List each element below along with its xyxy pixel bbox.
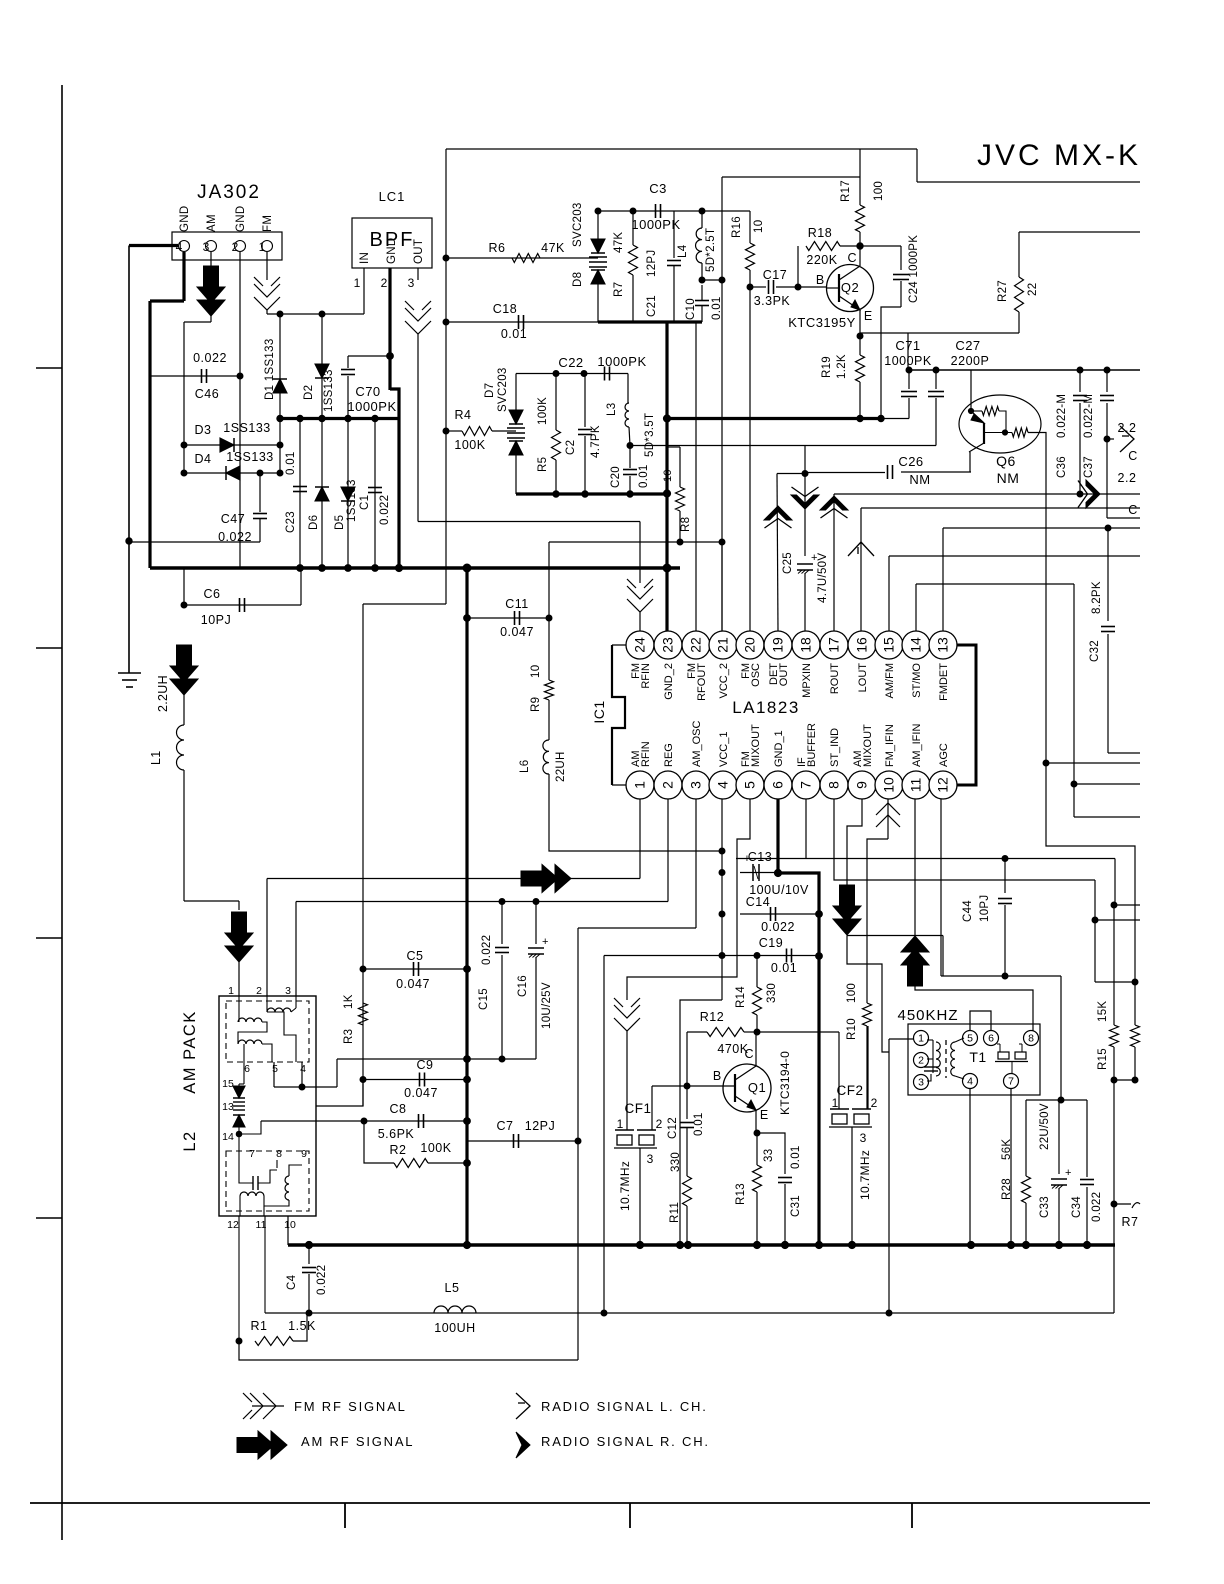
svg-text:C18: C18 [493, 302, 517, 316]
svg-text:C34: C34 [1071, 1196, 1083, 1218]
IC1 pin 15 [875, 631, 903, 659]
IC1 pin 22 [682, 631, 710, 659]
junction C16 top [533, 899, 539, 905]
svg-text:REG: REG [663, 743, 675, 767]
wire [900, 281, 902, 307]
bottom tick x912 [911, 1503, 913, 1528]
wire pin13 FMDET [942, 528, 944, 631]
diode D4 1SS133 [226, 466, 240, 480]
junction bus [684, 1241, 691, 1248]
wire C34 top [1086, 1100, 1088, 1177]
bottom tick x630 [629, 1503, 631, 1528]
junction bus [815, 1241, 822, 1248]
wire C4 top [308, 1245, 310, 1264]
wire [784, 1184, 786, 1245]
capacitor C15 [495, 948, 509, 953]
capacitor C36 [1073, 396, 1087, 401]
junction [319, 311, 325, 317]
junction [1043, 760, 1049, 766]
capacitor C16 [528, 936, 548, 958]
wire [942, 936, 944, 977]
svg-text:220K: 220K [806, 253, 837, 267]
junction bus [636, 1241, 643, 1248]
wire JA302-1 [266, 252, 268, 280]
svg-text:OSC: OSC [750, 663, 762, 687]
wire JA302-2 to bus [239, 252, 241, 568]
wire [927, 1058, 933, 1060]
wire [308, 1274, 310, 1313]
wire tank line y373 [516, 373, 628, 375]
wire C6 right to bus [300, 568, 302, 605]
wire D5 column [347, 419, 349, 569]
svg-text:1000PK: 1000PK [631, 217, 680, 232]
wire thick bus y494 [516, 492, 667, 495]
T1 pin 2 [914, 1053, 929, 1068]
wire [293, 1313, 307, 1341]
wire [262, 1044, 272, 1062]
wire R28 top [1025, 1100, 1027, 1176]
wire pin21 VCC_2 [721, 542, 723, 631]
junction [627, 491, 633, 497]
filter CF1 right plate [637, 1129, 656, 1131]
svg-text:C7: C7 [497, 1119, 514, 1133]
svg-text:NM: NM [909, 472, 930, 487]
wire pin2 REG [667, 799, 669, 902]
diode D3 1SS133 [220, 438, 234, 452]
wire [756, 1015, 758, 1032]
wire [686, 1206, 688, 1245]
filter CF2 right element [854, 1114, 869, 1124]
junction C37 top [1104, 367, 1110, 373]
svg-text:1: 1 [354, 276, 361, 290]
junction Q2 base node [795, 284, 801, 290]
wire [291, 1008, 296, 1012]
junction R14 top [754, 953, 760, 959]
svg-text:FM: FM [262, 215, 274, 232]
wire stub y784 [1074, 783, 1140, 785]
svg-text:KTC3194-0: KTC3194-0 [778, 1051, 792, 1115]
junction [1002, 430, 1007, 435]
wire C1 column [374, 419, 376, 569]
wire [701, 285, 703, 300]
junction C44 top [1002, 856, 1008, 862]
wire [639, 612, 641, 631]
wire x1114 down [1113, 1080, 1115, 1313]
svg-text:7: 7 [249, 1148, 255, 1160]
svg-text:17: 17 [826, 637, 842, 653]
wire [955, 1038, 964, 1042]
page bottom border [30, 1502, 1150, 1504]
junction bus [463, 1241, 470, 1248]
svg-text:C11: C11 [505, 597, 529, 611]
border tick y1218 [36, 1217, 62, 1219]
IC1 pin 16 [848, 631, 876, 659]
transistor Q1 [723, 1064, 771, 1112]
svg-text:2: 2 [656, 1117, 663, 1131]
wire Q6 emitter pin down [969, 452, 971, 473]
svg-text:C6: C6 [204, 587, 221, 601]
wire [804, 573, 806, 631]
wire AGC line y976 [941, 975, 1061, 977]
wire [239, 1121, 261, 1134]
AM PACK L2 body [219, 996, 316, 1216]
junction R7 top [630, 208, 636, 214]
svg-text:100: 100 [873, 181, 885, 201]
L2 coil b [267, 1008, 291, 1012]
wire [626, 1031, 628, 1130]
wire thick pin23 GND_2 [665, 322, 668, 631]
svg-text:IN: IN [359, 252, 371, 264]
wire Q6 collector route [1046, 763, 1135, 982]
junction D1/bus [277, 415, 283, 421]
wire pin4 VCC_1 [721, 799, 723, 1000]
svg-text:R13: R13 [735, 1183, 747, 1205]
junction C36 top [1077, 367, 1083, 373]
wire CF1 pin2 lead [651, 1086, 653, 1130]
svg-text:R7: R7 [613, 282, 625, 297]
wire x578 [577, 928, 579, 1360]
resistor R13 [753, 1165, 762, 1192]
wire [266, 310, 268, 314]
wire [701, 263, 703, 280]
junction [299, 1084, 305, 1090]
svg-text:0.01: 0.01 [693, 1112, 705, 1136]
wire C21 top [673, 211, 675, 258]
svg-text:ROUT: ROUT [829, 663, 841, 694]
wire x363 column [362, 604, 364, 1106]
junction bus [1022, 1241, 1029, 1248]
wire [859, 232, 861, 246]
svg-text:KTC3195Y: KTC3195Y [788, 315, 856, 330]
wire [238, 1084, 240, 1086]
wire base [798, 286, 827, 288]
wire D7 bottom [515, 455, 517, 494]
junction Q1 emitter node [754, 1130, 760, 1136]
wire y1313 [265, 1312, 1114, 1314]
wire L2 pin12 down [238, 1216, 240, 1341]
svg-text:4: 4 [715, 781, 731, 789]
wire x267 to AM pack pin2 [266, 879, 268, 997]
capacitor C23 [293, 487, 307, 492]
capacitor C12 [680, 1123, 694, 1128]
svg-text:2: 2 [256, 985, 262, 997]
svg-text:3.3PK: 3.3PK [754, 294, 791, 308]
svg-text:5D*3.5T: 5D*3.5T [644, 413, 656, 457]
svg-text:C27: C27 [955, 338, 980, 353]
junction thick x667/bus [663, 415, 670, 422]
wire C24 bottom [881, 307, 901, 419]
svg-text:0.022: 0.022 [1091, 1192, 1103, 1222]
wire [881, 418, 909, 420]
capacitor C5 [414, 962, 419, 976]
svg-text:1SS133: 1SS133 [226, 450, 273, 464]
wire pin10 FM_IFIN [887, 799, 889, 839]
L2 coil a [238, 1018, 262, 1022]
IC1 pin 12 [929, 771, 957, 799]
wire [859, 336, 861, 355]
wire [316, 1080, 363, 1107]
junction x129/y541 [126, 538, 132, 544]
svg-text:C32: C32 [1089, 640, 1101, 662]
wire [184, 321, 211, 323]
junction [1092, 917, 1098, 923]
svg-text:Q6: Q6 [996, 453, 1016, 469]
svg-text:100K: 100K [454, 438, 485, 452]
wire stub y905 [1114, 904, 1140, 906]
svg-text:5: 5 [272, 1063, 278, 1075]
svg-text:R7: R7 [1122, 1215, 1139, 1229]
junction R2 [464, 1160, 471, 1167]
svg-text:OUT: OUT [413, 239, 425, 264]
svg-text:0.022: 0.022 [761, 920, 795, 934]
wire R15b top lead [1134, 982, 1136, 1025]
svg-text:L2: L2 [181, 1130, 199, 1151]
junction [297, 415, 303, 421]
svg-text:1: 1 [918, 1033, 924, 1045]
svg-text:C: C [744, 1047, 753, 1061]
svg-text:47K: 47K [541, 241, 565, 255]
wire pin5 FM MIXOUT to CF1 [627, 799, 750, 1000]
svg-text:2.2: 2.2 [1118, 471, 1137, 485]
IC1 pin 1 [626, 771, 654, 799]
svg-text:3: 3 [647, 1152, 654, 1166]
capacitor C31 [778, 1178, 792, 1183]
wire x604 [603, 956, 605, 1314]
junction C8 [464, 1118, 471, 1125]
inductor L5 [434, 1306, 476, 1313]
wire [629, 427, 630, 446]
transistor Q6 [959, 395, 1041, 453]
wire D4 line [184, 472, 280, 474]
svg-text:2.2: 2.2 [1118, 421, 1137, 435]
resistor R14 [753, 987, 762, 1015]
wire [935, 370, 937, 389]
junction C19 line [719, 953, 725, 959]
wire [1079, 370, 1081, 392]
junction R5 top [553, 371, 559, 377]
wire pin1 AM RFIN [639, 799, 641, 879]
svg-text:NM: NM [997, 470, 1020, 486]
inductor L3 [625, 403, 629, 427]
svg-text:3: 3 [285, 985, 291, 997]
AM RF arrow above AM PACK [225, 912, 253, 962]
wire [347, 376, 349, 419]
wire y1059 [337, 1058, 536, 1060]
wire Q1 collector [755, 1032, 757, 1066]
junction bus [1083, 1241, 1090, 1248]
wire C19 line y955 [604, 955, 819, 957]
resistor R8 [676, 487, 685, 511]
wire [1079, 403, 1081, 494]
svg-text:10U/25V: 10U/25V [541, 982, 553, 1029]
svg-text:D6: D6 [308, 515, 320, 530]
wire C2 column [584, 374, 586, 428]
capacitor C1 [368, 488, 382, 493]
junction C19 right [816, 953, 823, 960]
wire JA302-3 [210, 252, 212, 268]
junction [663, 490, 670, 497]
wire C18 line [446, 321, 598, 323]
border tick y648 [36, 647, 62, 649]
svg-text:R18: R18 [808, 226, 832, 240]
wire mpx bus y370 [908, 369, 1140, 371]
junction [306, 1310, 312, 1316]
wire pin16 LOUT [860, 508, 862, 631]
IC1 pin 19 [764, 631, 792, 659]
wire L2 pin10 down [287, 1216, 289, 1245]
junction C37/output [1104, 436, 1110, 442]
svg-text:15: 15 [881, 637, 897, 653]
wire pin22 FM RFOUT [695, 322, 697, 631]
svg-text:C4: C4 [286, 1274, 298, 1290]
Q6 internal resistor 1 [982, 407, 999, 416]
wire [1018, 312, 1020, 333]
svg-text:20: 20 [742, 637, 758, 653]
junction [395, 564, 402, 571]
svg-text:100UH: 100UH [434, 1321, 475, 1335]
wire [289, 1165, 302, 1176]
resistor R7x stub (cut) [1132, 1203, 1140, 1208]
wire L2 pin11 down [264, 1216, 266, 1313]
svg-text:15: 15 [222, 1078, 234, 1090]
svg-text:22U/50V: 22U/50V [1039, 1103, 1051, 1150]
svg-text:450KHZ: 450KHZ [897, 1007, 958, 1024]
svg-text:D4: D4 [195, 452, 212, 466]
wire [971, 410, 982, 412]
capacitor C34 [1080, 1180, 1094, 1185]
capacitor C9 [420, 1073, 425, 1087]
wire [917, 181, 1140, 183]
svg-text:100K: 100K [537, 397, 549, 425]
svg-text:C13: C13 [748, 850, 772, 864]
filter CF1 left element [617, 1135, 632, 1145]
wire Q2 collector [859, 246, 861, 266]
wire [900, 246, 902, 270]
wire thick bus y418 east [667, 417, 881, 420]
svg-text:7: 7 [798, 781, 814, 789]
IC1 pin 24 [626, 631, 654, 659]
junction C47 top [257, 470, 263, 476]
wire L2 pin8 stub [276, 1160, 278, 1168]
svg-text:BUFFER: BUFFER [806, 723, 818, 767]
filter CF1 right element [639, 1135, 654, 1145]
AM RF arrow on AM MIXOUT [833, 885, 861, 935]
wire C47 to ground column [129, 541, 260, 543]
wire C13 line [740, 872, 778, 874]
wire [1106, 403, 1108, 518]
junction [181, 470, 187, 476]
svg-text:C20: C20 [610, 466, 622, 488]
wire [584, 436, 586, 494]
wire to R17 top [722, 176, 860, 178]
svg-text:C9: C9 [417, 1058, 434, 1072]
svg-text:FM_IFIN: FM_IFIN [884, 724, 896, 767]
T1 pin 8 [1024, 1031, 1039, 1046]
svg-text:ST/MO: ST/MO [911, 663, 923, 698]
svg-text:0.022-M: 0.022-M [1083, 394, 1095, 438]
svg-text:B: B [713, 1069, 721, 1083]
wire [263, 1206, 265, 1216]
wire AM RFIN line y878 [267, 878, 640, 880]
resistor R5 [552, 430, 561, 460]
junction C27 top [933, 367, 939, 373]
inductor L4 [696, 228, 702, 263]
wire pin3 AM_OSC [695, 799, 697, 928]
svg-text:D1 1SS133: D1 1SS133 [264, 338, 276, 400]
diode D5 1SS133 [341, 487, 355, 501]
wire pin8 ST_IND [834, 799, 1095, 880]
junction [719, 277, 725, 283]
svg-text:3: 3 [860, 1131, 867, 1145]
wire FM node y314 [267, 313, 364, 315]
wire [1094, 880, 1096, 982]
junction C32 top [1105, 525, 1111, 531]
wire [535, 957, 537, 1059]
wire [916, 149, 918, 182]
svg-text:11: 11 [908, 778, 924, 793]
junction x889/L5 line [886, 1310, 892, 1316]
capacitor C32 [1101, 627, 1115, 632]
svg-text:C: C [1128, 449, 1138, 463]
junction bus [753, 1241, 760, 1248]
transistor Q2 [827, 265, 874, 312]
wire thick AM det bus y418 [280, 417, 399, 420]
wire osc top line y211 [598, 210, 750, 212]
wire emitter to R27 [860, 332, 1019, 334]
FM RF arrow on FM MIXOUT to CF1 [614, 998, 640, 1031]
wire [686, 1086, 688, 1119]
capacitor C13 electrolytic [744, 853, 759, 881]
junction R15 bottoms [1111, 1077, 1117, 1083]
capacitor C21 [667, 261, 681, 266]
wire thick [390, 389, 399, 420]
wire [1114, 859, 1116, 906]
junction Q6 base node [968, 408, 973, 413]
junction bus [676, 1241, 683, 1248]
svg-text:0.047: 0.047 [404, 1086, 438, 1100]
wire [239, 1160, 253, 1183]
svg-text:3: 3 [408, 276, 415, 290]
wire AM pack pin5 stub [273, 1062, 275, 1087]
IC1 pin 14 [902, 631, 930, 659]
wire Q2 emitter [859, 310, 861, 336]
svg-text:JVC MX-K: JVC MX-K [977, 139, 1141, 172]
border tick y368 [36, 367, 62, 369]
svg-text:CF1: CF1 [624, 1101, 651, 1116]
svg-text:C15: C15 [478, 988, 490, 1010]
wire [238, 901, 240, 910]
wire thick JA302-4 to ground column [129, 244, 178, 247]
svg-text:0.01: 0.01 [285, 451, 297, 475]
svg-text:C33: C33 [1039, 1196, 1051, 1218]
capacitor C33 [1051, 1167, 1071, 1189]
svg-text:9: 9 [854, 781, 870, 789]
svg-text:C8: C8 [390, 1102, 407, 1116]
IC1 pin 6 [764, 771, 792, 799]
svg-text:R15: R15 [1097, 1048, 1109, 1070]
svg-text:C22: C22 [558, 355, 583, 370]
svg-text:R4: R4 [455, 408, 472, 422]
Q6 internal transistor [969, 411, 984, 452]
L2 coil d [285, 1176, 289, 1200]
wire Q1 emitter [755, 1110, 757, 1133]
wire R6 line [446, 257, 598, 259]
wire thick pin6 GND_1 [778, 799, 819, 1245]
wire pin17 ROUT [833, 494, 835, 631]
AM RF arrow above L1 [170, 645, 198, 695]
resistor R17 [856, 205, 865, 232]
svg-text:R5: R5 [537, 457, 549, 472]
